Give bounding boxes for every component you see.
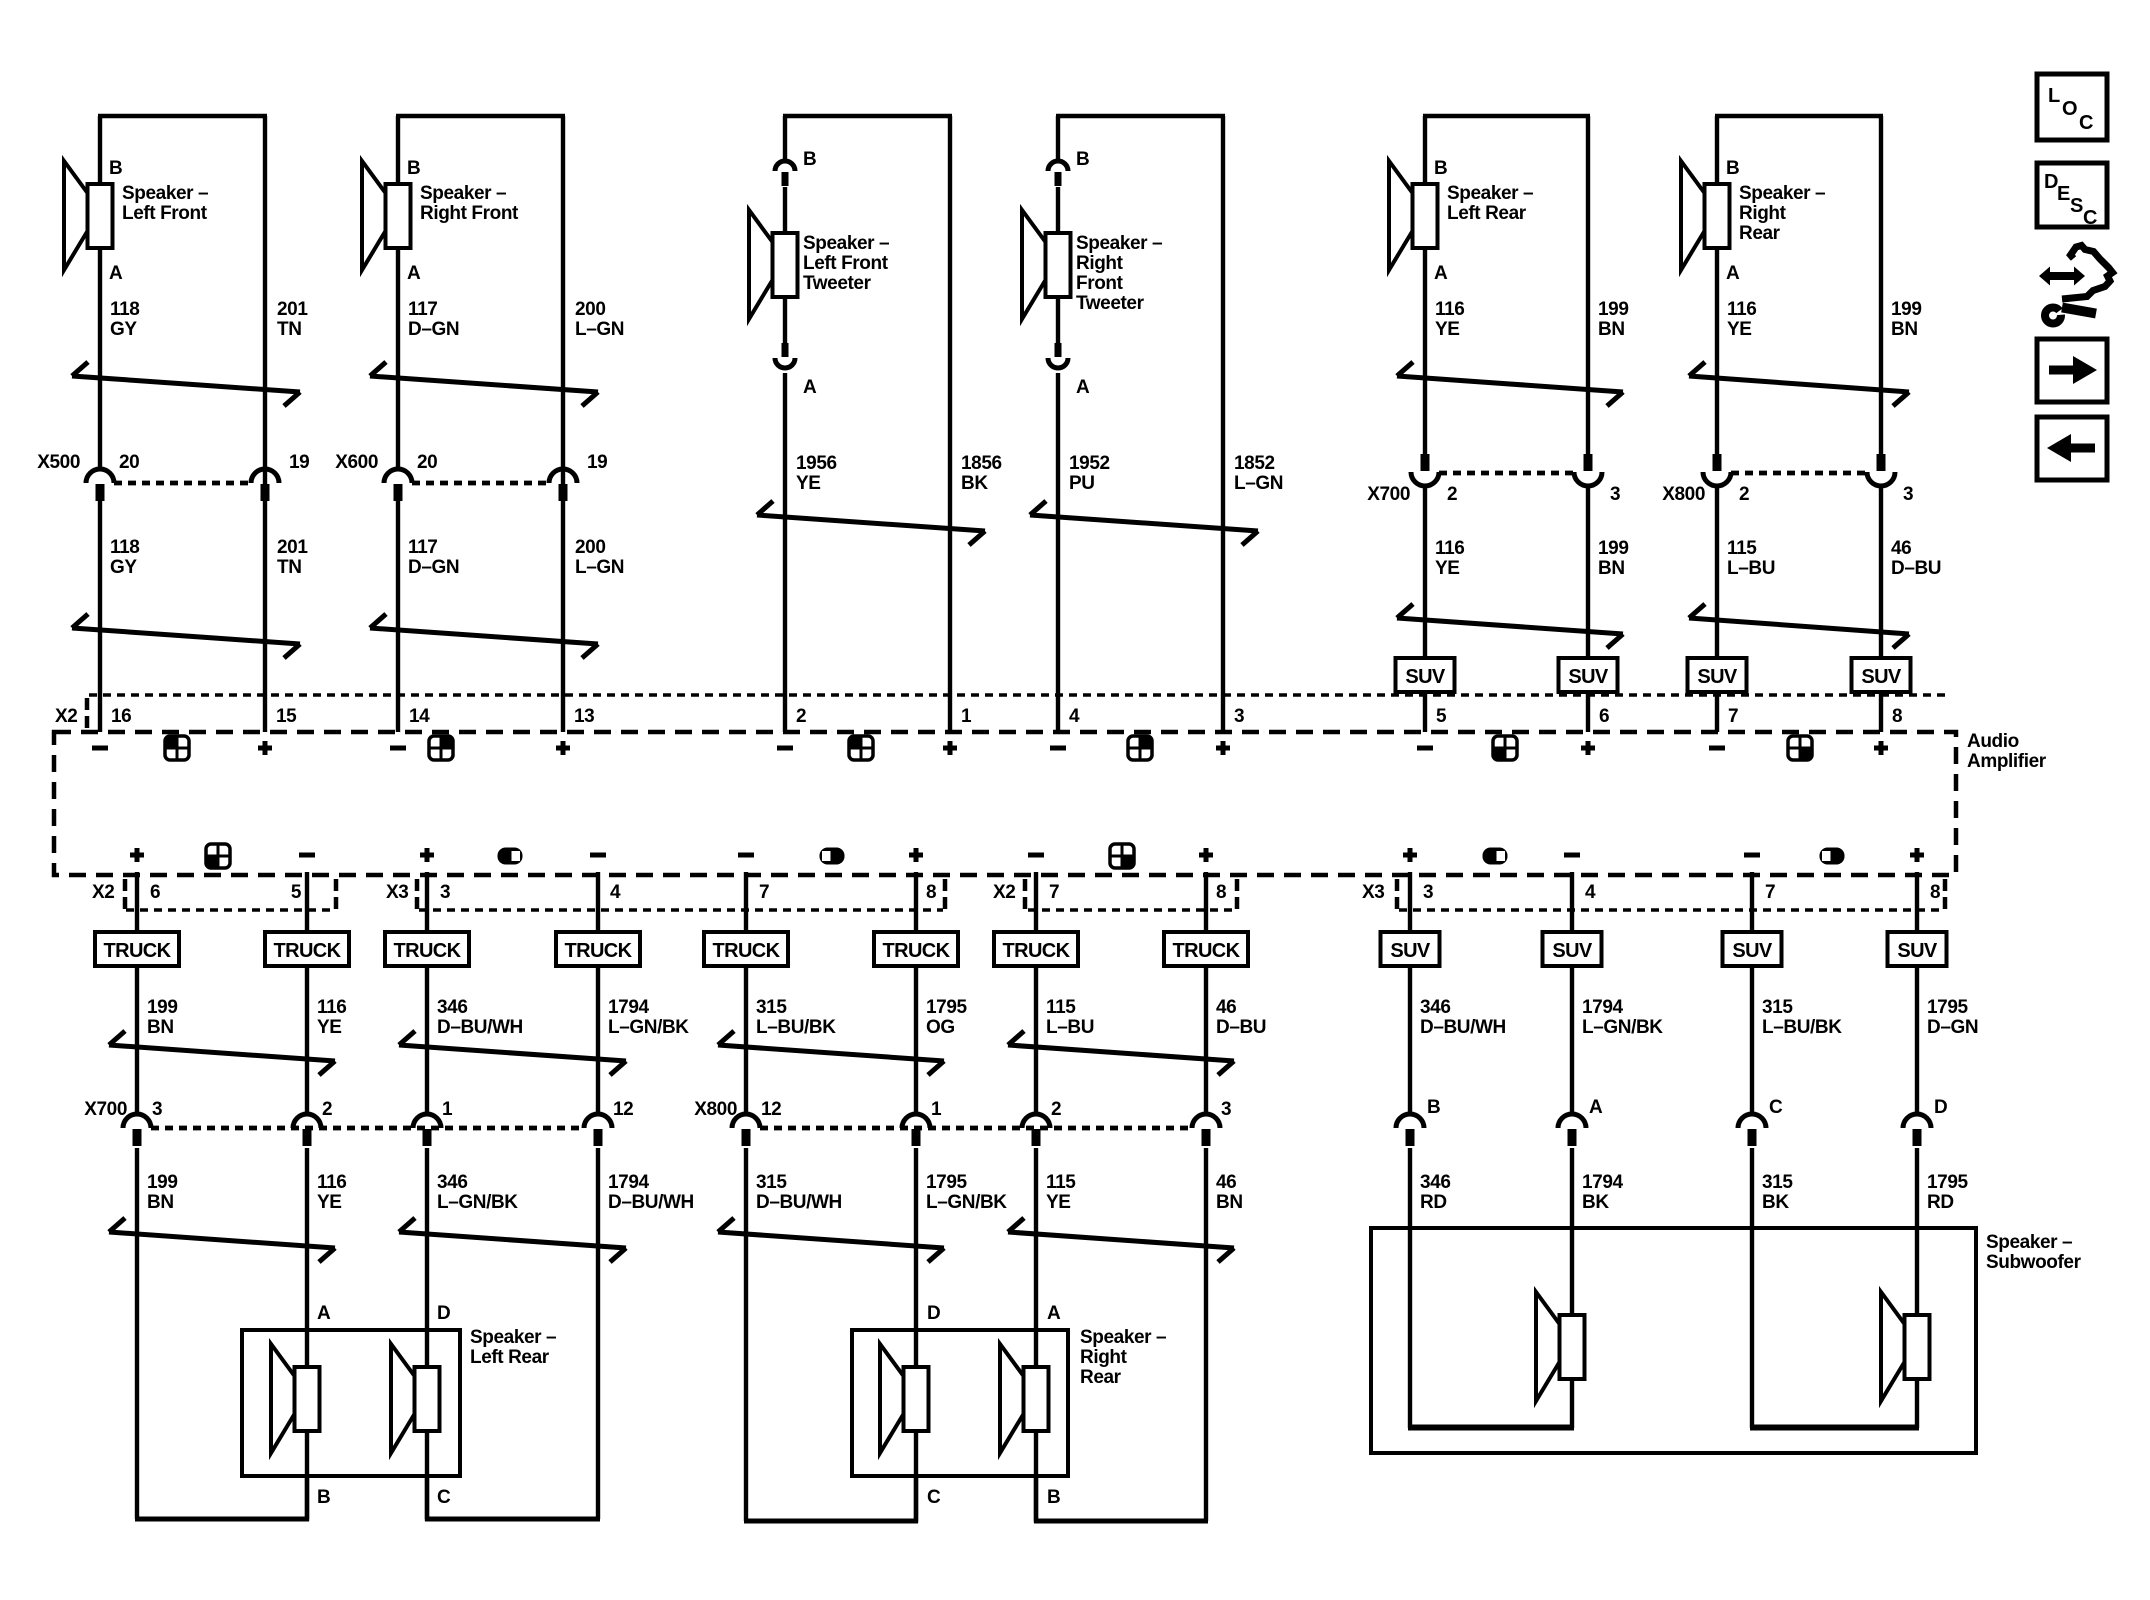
inline connector pin A subwoofer [1558, 1114, 1586, 1146]
svg-text:116: 116 [1435, 538, 1464, 559]
svg-text:SUV: SUV [1552, 940, 1593, 962]
svg-text:199: 199 [1598, 299, 1629, 320]
wire 1794 D–BU/WH segment [596, 1148, 600, 1519]
svg-text:46: 46 [1216, 997, 1236, 1018]
pin label A [407, 263, 421, 284]
subwoofer icon (suv ch1) [1483, 848, 1508, 865]
harness tag TRUCK [994, 932, 1078, 966]
connector X700 pin 1 [413, 1114, 441, 1146]
svg-text:TN: TN [277, 557, 302, 578]
connector X800 pin 12 [732, 1114, 760, 1146]
svg-text:SUV: SUV [1732, 940, 1773, 962]
svg-text:C: C [927, 1487, 941, 1508]
svg-text:B: B [1047, 1487, 1060, 1508]
amplifier pin 7 (bottom) [1765, 882, 1775, 903]
svg-text:D: D [437, 1303, 450, 1324]
pin label A [1076, 377, 1090, 398]
svg-text:1794: 1794 [608, 997, 650, 1018]
svg-text:346: 346 [1420, 1172, 1451, 1193]
component Audio Amplifier dashed box [54, 732, 1956, 875]
twisted pair symbol lower [718, 1218, 944, 1262]
svg-text:A: A [317, 1303, 331, 1324]
harness tag SUV [1396, 658, 1455, 692]
connector X2 top dotted line [89, 693, 1950, 697]
wire label 117 D-GN [408, 299, 459, 340]
pin number 2 [1739, 484, 1749, 505]
svg-text:1794: 1794 [1582, 997, 1624, 1018]
pin label D [1934, 1097, 1947, 1118]
inline connector pin B tweeter LF [775, 161, 795, 186]
svg-text:L–GN/BK: L–GN/BK [1582, 1017, 1663, 1038]
svg-text:116: 116 [317, 997, 346, 1018]
label Speaker - Left Rear [470, 1327, 556, 1368]
wire label 1956 YE [796, 453, 837, 494]
wire 199 BN upper segment RR [1879, 116, 1883, 455]
connector X2 separator colon [85, 698, 90, 729]
connector X700 pin 12 [584, 1114, 612, 1146]
svg-text:B: B [1427, 1097, 1440, 1118]
wire 1794 L–GN/BK amp stub [1570, 872, 1574, 1116]
wire 200 L-GN upper segment [561, 116, 565, 484]
amplifier pin 8 (bottom) [1930, 882, 1940, 903]
wire tweeter RF mid [1056, 187, 1060, 344]
wire 1794 BK segment [1570, 1148, 1574, 1428]
wire 315 BK internal [1750, 1425, 1919, 1431]
wire label 46 D-BU [1891, 538, 1941, 579]
svg-text:YE: YE [1435, 319, 1460, 340]
svg-text:X2: X2 [55, 706, 77, 727]
wire label 199 BN [147, 997, 178, 1038]
wire label 115 L–BU [1046, 997, 1094, 1038]
connector X800 pin 3 [1192, 1114, 1220, 1146]
wire label 117 D-GN lower [408, 537, 459, 578]
twisted pair symbol LF lower [72, 614, 300, 658]
svg-text:117: 117 [408, 537, 437, 558]
svg-text:Right: Right [1076, 253, 1124, 274]
wire label 315 L–BU/BK [1762, 997, 1842, 1038]
wire speaker Right Front loop top [396, 114, 565, 118]
wire 346 RD segment [1408, 1148, 1412, 1428]
svg-text:Left Front: Left Front [122, 203, 208, 224]
svg-text:15: 15 [276, 706, 297, 727]
amplifier pin 7 (bottom) [759, 882, 769, 903]
inline connector pin C subwoofer [1738, 1114, 1766, 1146]
pin label B [1427, 1097, 1440, 1118]
connector X500 pin 19 [251, 469, 279, 501]
wire 1794 D-BU/WH to pin C [425, 1517, 600, 1522]
svg-text:B: B [1076, 149, 1089, 170]
connector label X2 [55, 706, 77, 727]
amplifier pin 4 (bottom) [610, 882, 621, 903]
pin label A [1047, 1303, 1061, 1324]
wire label 315 BK lower [1762, 1172, 1793, 1213]
svg-text:3: 3 [1234, 706, 1244, 727]
speaker Speaker - Left Front [64, 161, 113, 270]
wire 346 RD internal [1408, 1425, 1574, 1431]
svg-text:20: 20 [417, 452, 437, 473]
wire label 1794 L–GN/BK [608, 997, 689, 1038]
wire stub pin B [305, 1476, 309, 1521]
wire stub pin C [914, 1476, 918, 1523]
amplifier pin 8 (bottom) [926, 882, 936, 903]
wire label 118 GY [110, 299, 139, 340]
label Speaker - Left Front Tweeter [803, 233, 889, 294]
wire 118 GY upper segment [98, 116, 102, 470]
pin label B [1434, 158, 1447, 179]
inline connector pin B subwoofer [1396, 1114, 1424, 1146]
amplifier pin 15 (X2 top) [276, 706, 297, 727]
svg-text:A: A [1076, 377, 1090, 398]
svg-text:A: A [407, 263, 421, 284]
svg-text:Tweeter: Tweeter [803, 273, 872, 294]
svg-text:A: A [109, 263, 123, 284]
svg-text:BN: BN [1216, 1192, 1243, 1213]
svg-text:B: B [407, 158, 420, 179]
svg-text:199: 199 [1891, 299, 1922, 320]
svg-text:315: 315 [1762, 1172, 1793, 1193]
connector X700 dashed line bottom [151, 1126, 584, 1131]
svg-text:116: 116 [317, 1172, 346, 1193]
wire 346 D–BU/WH amp stub [1408, 872, 1412, 1116]
svg-text:3: 3 [1423, 882, 1433, 903]
amplifier pin 8 (X2 top) [1892, 706, 1902, 727]
svg-text:X2: X2 [993, 882, 1015, 903]
harness tag SUV [1852, 658, 1911, 692]
svg-text:L–BU: L–BU [1727, 558, 1775, 579]
svg-text:118: 118 [110, 299, 139, 320]
amplifier pin 5 (bottom) [291, 882, 302, 903]
wire label 1794 D–BU/WH lower [608, 1172, 694, 1213]
wire label 201 TN [277, 299, 308, 340]
wire 116 YE amp stub [305, 872, 309, 1116]
twisted pair symbol RR [1689, 362, 1909, 406]
wire tweeter LF loop top [783, 114, 952, 118]
wire label 346 RD lower [1420, 1172, 1451, 1213]
amplifier pin 8 (bottom) [1216, 882, 1226, 903]
svg-text:D–BU/WH: D–BU/WH [1420, 1017, 1506, 1038]
svg-text:D–GN: D–GN [408, 557, 459, 578]
wire label 1795 RD lower [1927, 1172, 1969, 1213]
component Speaker - Subwoofer box [1371, 1228, 1976, 1453]
svg-text:GY: GY [110, 319, 137, 340]
pin number 3 [152, 1099, 162, 1120]
svg-text:7: 7 [1765, 882, 1775, 903]
connector X700 pin 2 [293, 1114, 321, 1146]
svg-text:2: 2 [796, 706, 806, 727]
pin number 2 [1051, 1099, 1061, 1120]
connector dotted lines bottom row [126, 908, 1943, 912]
svg-text:201: 201 [277, 299, 308, 320]
speaker element RR woofer 2 [1000, 1344, 1049, 1453]
twisted pair symbol [399, 1031, 626, 1075]
svg-text:TRUCK: TRUCK [883, 940, 951, 962]
svg-text:D–BU: D–BU [1216, 1017, 1266, 1038]
inline connector pin B tweeter RF [1048, 161, 1068, 186]
pin label B [1076, 149, 1089, 170]
twisted pair symbol RF lower [370, 614, 598, 658]
svg-text:1856: 1856 [961, 453, 1002, 474]
svg-text:Left Rear: Left Rear [470, 1347, 550, 1368]
svg-text:46: 46 [1216, 1172, 1236, 1193]
wire 201 TN upper segment [263, 116, 267, 484]
label Speaker - Subwoofer [1986, 1232, 2082, 1273]
connector X800 pin 1 [902, 1114, 930, 1146]
speaker position icon rear-right (truck) [1110, 844, 1134, 868]
inline connector pin A tweeter RF [1048, 343, 1068, 368]
wire 117 D-GN upper segment [396, 116, 400, 470]
twisted pair symbol tweeter RF [1030, 501, 1258, 545]
svg-text:1795: 1795 [1927, 997, 1969, 1018]
wire label 118 GY lower [110, 537, 139, 578]
wire label 116 YE [317, 997, 346, 1038]
svg-text:X500: X500 [37, 452, 80, 473]
amplifier pin 5 (X2 top) [1436, 706, 1447, 727]
svg-text:Left Front: Left Front [803, 253, 889, 274]
svg-text:X600: X600 [335, 452, 378, 473]
svg-text:12: 12 [761, 1099, 781, 1120]
connector X500 pin 20 [86, 469, 114, 501]
pin number 20 [119, 452, 139, 473]
connector X700 dashed line [1439, 471, 1574, 476]
speaker Speaker - Right Rear [1681, 161, 1730, 270]
connector label X3 bottom second [1362, 882, 1384, 903]
amplifier pin 4 (X2 top) [1069, 706, 1080, 727]
speaker Speaker - Right Front [362, 161, 411, 270]
svg-text:8: 8 [926, 882, 936, 903]
svg-text:Left Rear: Left Rear [1447, 203, 1527, 224]
subwoofer icon (truck ch2) [820, 848, 845, 865]
wire stub pin B [1034, 1476, 1038, 1523]
wire label 115 YE lower [1046, 1172, 1076, 1213]
svg-text:L–BU: L–BU [1046, 1017, 1094, 1038]
svg-text:3: 3 [1610, 484, 1620, 505]
wire 346 L–GN/BK segment [425, 1148, 429, 1519]
connector X800 dashed line [1731, 471, 1867, 476]
connector label X2 bottom second [993, 882, 1015, 903]
pin label B [317, 1487, 330, 1508]
svg-text:8: 8 [1892, 706, 1902, 727]
wire 199 BN to pin B [135, 1517, 309, 1522]
wire label 199 BN lower [1598, 538, 1629, 579]
svg-text:Rear: Rear [1080, 1367, 1122, 1388]
label Speaker - Left Front [122, 183, 208, 224]
wire 46 D–BU amp stub [1204, 872, 1208, 1116]
amplifier pin 4 (bottom) [1585, 882, 1596, 903]
svg-text:13: 13 [574, 706, 594, 727]
svg-text:2: 2 [1739, 484, 1749, 505]
twisted pair symbol lower [399, 1218, 626, 1262]
wire label 315 L–BU/BK [756, 997, 836, 1038]
twisted pair symbol [1008, 1031, 1234, 1075]
svg-text:D–BU/WH: D–BU/WH [756, 1192, 842, 1213]
icon DESC button [2037, 163, 2107, 229]
label Speaker - Right Front [420, 183, 519, 224]
subwoofer icon (truck ch1) [498, 848, 523, 865]
svg-text:L–GN/BK: L–GN/BK [926, 1192, 1007, 1213]
wire 1794 L–GN/BK amp stub [596, 872, 600, 1116]
pin number 20 [417, 452, 437, 473]
svg-text:L–GN: L–GN [1234, 473, 1283, 494]
svg-text:L–GN: L–GN [575, 319, 624, 340]
connector X700 pin 3 [1574, 454, 1602, 486]
twisted pair symbol [109, 1031, 335, 1075]
svg-text:115: 115 [1046, 997, 1076, 1018]
svg-text:20: 20 [119, 452, 139, 473]
pin number 1 [931, 1099, 942, 1120]
wire label 200 L-GN lower [575, 537, 624, 578]
svg-text:YE: YE [1435, 558, 1460, 579]
svg-text:1795: 1795 [926, 1172, 968, 1193]
svg-text:1952: 1952 [1069, 453, 1110, 474]
pin number 12 [761, 1099, 781, 1120]
svg-text:199: 199 [147, 997, 178, 1018]
pin label B [1726, 158, 1739, 179]
pin label A [1589, 1097, 1603, 1118]
label Speaker - Right Front Tweeter [1076, 233, 1162, 314]
svg-text:B: B [1434, 158, 1447, 179]
speaker element RR woofer 1 [880, 1344, 929, 1453]
wire 117 D-GN lower segment [396, 501, 400, 732]
pin number 1 [442, 1099, 453, 1120]
label Audio Amplifier [1967, 731, 2047, 772]
wire 116 YE lower segment [1423, 486, 1427, 732]
svg-text:E: E [2057, 183, 2070, 205]
wire label 1794 BK lower [1582, 1172, 1624, 1213]
svg-text:SUV: SUV [1390, 940, 1431, 962]
svg-text:TRUCK: TRUCK [713, 940, 781, 962]
svg-text:199: 199 [147, 1172, 178, 1193]
amplifier pin 6 (bottom) [150, 882, 160, 903]
svg-text:Speaker –: Speaker – [420, 183, 506, 204]
svg-text:C: C [437, 1487, 451, 1508]
svg-text:L–BU/BK: L–BU/BK [756, 1017, 836, 1038]
wire label 1952 PU [1069, 453, 1110, 494]
svg-text:Right: Right [1739, 203, 1787, 224]
svg-text:D: D [927, 1303, 940, 1324]
svg-text:6: 6 [1599, 706, 1609, 727]
svg-text:14: 14 [409, 706, 430, 727]
wire 315 D-BU/WH to pin C [744, 1519, 918, 1524]
pin label C [927, 1487, 941, 1508]
speaker element subwoofer 1 [1536, 1292, 1585, 1401]
wire 199 BN lower segment [1586, 486, 1590, 732]
wire label 115 L-BU [1727, 538, 1775, 579]
svg-text:1: 1 [442, 1099, 453, 1120]
connector label X700 bottom [84, 1099, 127, 1120]
speaker Speaker - Left Rear [1389, 161, 1438, 270]
svg-text:Rear: Rear [1739, 223, 1781, 244]
svg-text:1795: 1795 [1927, 1172, 1969, 1193]
connector label X3 bottom [386, 882, 408, 903]
svg-text:Speaker –: Speaker – [1986, 1232, 2072, 1253]
svg-text:Audio: Audio [1967, 731, 2019, 752]
svg-text:8: 8 [1930, 882, 1940, 903]
svg-text:O: O [2062, 98, 2078, 120]
pin number 3 [1610, 484, 1620, 505]
svg-text:X3: X3 [1362, 882, 1384, 903]
twisted pair symbol tweeter LF [757, 501, 985, 545]
wire label 116 YE [1435, 299, 1464, 340]
wire 1795 D–GN amp stub [1915, 872, 1919, 1116]
svg-text:SUV: SUV [1861, 666, 1902, 688]
amplifier pin 1 (X2 top) [961, 706, 972, 727]
speaker position icon tweeter front-left [849, 736, 873, 760]
svg-text:C: C [2083, 207, 2097, 229]
wire 1952 PU top stub [1056, 116, 1060, 162]
pin label D [437, 1303, 450, 1324]
wire 315 BK segment [1750, 1148, 1754, 1428]
wire 1795 OG amp stub [914, 872, 918, 1116]
wire tweeter LF mid [783, 187, 787, 344]
wire 1952 PU lower segment [1056, 373, 1060, 732]
svg-text:7: 7 [1728, 706, 1738, 727]
harness tag SUV [1723, 932, 1782, 966]
svg-text:X800: X800 [694, 1099, 737, 1120]
svg-text:116: 116 [1435, 299, 1464, 320]
harness tag SUV [1688, 658, 1747, 692]
svg-text:1794: 1794 [1582, 1172, 1624, 1193]
speaker position icon rear-left (truck) [206, 844, 230, 868]
harness tag TRUCK [556, 932, 640, 966]
svg-text:BK: BK [961, 473, 988, 494]
twisted pair symbol LR lower [1397, 604, 1623, 648]
svg-text:B: B [1726, 158, 1739, 179]
pin label B [803, 149, 816, 170]
svg-text:1: 1 [931, 1099, 942, 1120]
svg-text:4: 4 [1069, 706, 1080, 727]
connector X800 pin 2 [1022, 1114, 1050, 1146]
wire label 46 BN lower [1216, 1172, 1243, 1213]
wire 115 L-BU lower segment [1715, 486, 1719, 732]
wire 1795 RD segment [1915, 1148, 1919, 1428]
wire 116 YE upper segment RR [1715, 116, 1719, 455]
svg-text:2: 2 [322, 1099, 332, 1120]
pin label A [803, 377, 817, 398]
wire label 199 BN [1891, 299, 1922, 340]
svg-text:C: C [1769, 1097, 1783, 1118]
svg-text:YE: YE [1046, 1192, 1071, 1213]
label Speaker - Left Rear [1447, 183, 1533, 224]
svg-text:1: 1 [961, 706, 972, 727]
pin label A [109, 263, 123, 284]
svg-text:Subwoofer: Subwoofer [1986, 1252, 2082, 1273]
svg-text:Speaker –: Speaker – [470, 1327, 556, 1348]
pin number 2 [1447, 484, 1457, 505]
svg-text:BN: BN [1598, 319, 1625, 340]
svg-text:A: A [1589, 1097, 1603, 1118]
svg-text:D–GN: D–GN [1927, 1017, 1978, 1038]
connector X800 pin 3 [1867, 454, 1895, 486]
wire 116 YE segment [305, 1148, 309, 1519]
speaker position icon front-left [165, 736, 189, 760]
harness tag TRUCK [385, 932, 469, 966]
connector label X700 [1367, 484, 1410, 505]
svg-text:D–GN: D–GN [408, 319, 459, 340]
wire label 116 YE lower [1435, 538, 1464, 579]
wire label 1852 L-GN [1234, 453, 1283, 494]
svg-text:Speaker –: Speaker – [122, 183, 208, 204]
svg-text:SUV: SUV [1697, 666, 1738, 688]
svg-text:X700: X700 [84, 1099, 127, 1120]
speaker position icon rear-left [1493, 736, 1517, 760]
harness tag SUV [1543, 932, 1602, 966]
wire 200 L-GN lower segment [561, 501, 565, 732]
svg-text:Speaker –: Speaker – [1447, 183, 1533, 204]
wire 116 YE upper segment [1423, 116, 1427, 455]
amplifier pin 13 (X2 top) [574, 706, 594, 727]
svg-text:Speaker –: Speaker – [803, 233, 889, 254]
svg-text:TRUCK: TRUCK [274, 940, 342, 962]
